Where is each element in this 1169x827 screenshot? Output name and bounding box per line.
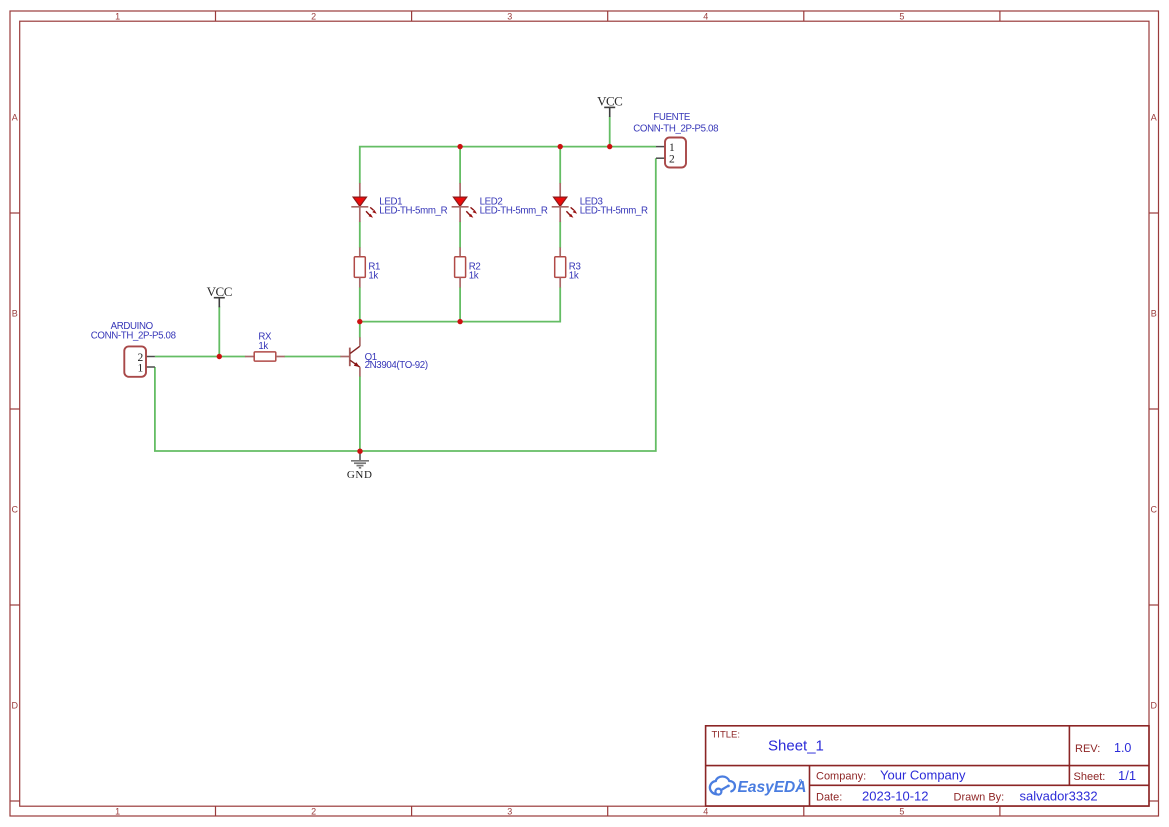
title block bbox=[706, 726, 1149, 806]
svg-text:Sheet_1: Sheet_1 bbox=[768, 738, 824, 755]
svg-text:A: A bbox=[12, 112, 18, 122]
svg-text:C: C bbox=[1151, 504, 1158, 514]
ground GND bbox=[347, 451, 373, 481]
svg-text:EasyEDA: EasyEDA bbox=[738, 779, 807, 796]
svg-text:TITLE:: TITLE: bbox=[712, 730, 741, 741]
svg-text:B: B bbox=[12, 308, 18, 318]
wire: LED2 to R2 bbox=[459, 222, 461, 248]
svg-text:Date:: Date: bbox=[816, 792, 842, 804]
svg-text:LED-TH-5mm_R: LED-TH-5mm_R bbox=[580, 206, 648, 217]
svg-text:1k: 1k bbox=[569, 271, 579, 282]
svg-text:1k: 1k bbox=[258, 341, 268, 352]
junction dot R2-rail bbox=[457, 319, 462, 324]
svg-text:1/1: 1/1 bbox=[1118, 768, 1136, 783]
power flag VCC top bbox=[597, 94, 622, 118]
wire: top VCC rail bbox=[360, 147, 656, 184]
power flag VCC left bbox=[207, 284, 232, 308]
junction dot rail-VCC bbox=[607, 144, 612, 149]
svg-text:CONN-TH_2P-P5.08: CONN-TH_2P-P5.08 bbox=[91, 331, 176, 342]
resistor R2 bbox=[455, 247, 481, 287]
wire: R2 bottom to rail bbox=[459, 287, 461, 321]
svg-text:2: 2 bbox=[311, 11, 316, 21]
svg-text:4: 4 bbox=[703, 806, 708, 816]
svg-text:VCC: VCC bbox=[597, 94, 622, 109]
svg-text:1k: 1k bbox=[469, 271, 479, 282]
svg-text:1: 1 bbox=[137, 362, 143, 374]
svg-text:CONN-TH_2P-P5.08: CONN-TH_2P-P5.08 bbox=[633, 124, 718, 135]
svg-text:B: B bbox=[1151, 308, 1157, 318]
transistor Q1 2N3904 bbox=[340, 337, 428, 376]
wire: bottom ground rail bbox=[155, 158, 656, 451]
wire: LED3 to R3 bbox=[559, 222, 561, 248]
svg-text:1.0: 1.0 bbox=[1114, 741, 1131, 755]
svg-text:salvador3332: salvador3332 bbox=[1020, 789, 1098, 804]
svg-text:1k: 1k bbox=[368, 271, 378, 282]
junction dot VCC-base wire bbox=[217, 354, 222, 359]
LED LED3 bbox=[552, 183, 648, 222]
LED LED1 bbox=[351, 183, 447, 222]
junction dot rail-LED3 bbox=[558, 144, 563, 149]
wire: VCC stub to rail bbox=[609, 117, 611, 147]
svg-text:LED-TH-5mm_R: LED-TH-5mm_R bbox=[379, 206, 447, 217]
junction dot collector-rail bbox=[357, 319, 362, 324]
connector FUENTE CONN-TH_2P-P5.08 bbox=[633, 112, 718, 168]
svg-text:C: C bbox=[12, 504, 19, 514]
svg-text:2: 2 bbox=[311, 806, 316, 816]
wire: RX to Q1 base bbox=[284, 356, 340, 358]
svg-text:4: 4 bbox=[703, 11, 708, 21]
svg-text:5: 5 bbox=[899, 11, 904, 21]
svg-text:1: 1 bbox=[669, 142, 675, 154]
svg-text:Sheet:: Sheet: bbox=[1074, 771, 1106, 783]
svg-text:5: 5 bbox=[899, 806, 904, 816]
svg-text:3: 3 bbox=[507, 11, 512, 21]
svg-text:1: 1 bbox=[115, 11, 120, 21]
wire: LED2 drop from rail bbox=[459, 147, 461, 184]
svg-text:Your Company: Your Company bbox=[880, 768, 966, 783]
svg-text:1: 1 bbox=[115, 806, 120, 816]
svg-text:D: D bbox=[1151, 700, 1158, 710]
wire: collector drop bbox=[359, 322, 361, 338]
LED LED2 bbox=[452, 183, 548, 222]
junction dot GND rail bbox=[357, 449, 362, 454]
svg-text:REV:: REV: bbox=[1075, 743, 1100, 755]
svg-text:Company:: Company: bbox=[816, 771, 866, 783]
wire: resistor bottom rail to collector bbox=[360, 287, 560, 321]
wire: base line from ARDUINO pin 2 through RX bbox=[155, 356, 246, 358]
svg-text:FUENTE: FUENTE bbox=[653, 112, 691, 123]
resistor R3 bbox=[555, 247, 581, 287]
resistor R1 bbox=[354, 247, 380, 287]
svg-text:LED-TH-5mm_R: LED-TH-5mm_R bbox=[480, 206, 548, 217]
wire: VCC left stub down bbox=[218, 306, 220, 356]
junction dot rail-LED2 bbox=[457, 144, 462, 149]
svg-text:2023-10-12: 2023-10-12 bbox=[862, 789, 929, 804]
svg-text:GND: GND bbox=[347, 469, 373, 481]
wire: LED3 drop from rail bbox=[559, 147, 561, 184]
svg-text:2N3904(TO-92): 2N3904(TO-92) bbox=[365, 360, 428, 371]
svg-text:VCC: VCC bbox=[207, 284, 232, 299]
wire: emitter down to ground rail bbox=[359, 376, 361, 451]
EasyEDA logo bbox=[710, 776, 807, 796]
wire: LED1 to R1 bbox=[359, 222, 361, 248]
svg-text:D: D bbox=[12, 700, 19, 710]
svg-text:A: A bbox=[1151, 112, 1157, 122]
resistor RX bbox=[245, 332, 285, 362]
svg-text:3: 3 bbox=[507, 806, 512, 816]
svg-text:Drawn By:: Drawn By: bbox=[954, 792, 1005, 804]
svg-text:2: 2 bbox=[669, 154, 675, 166]
connector ARDUINO CONN-TH_2P-P5.08 bbox=[91, 321, 176, 377]
